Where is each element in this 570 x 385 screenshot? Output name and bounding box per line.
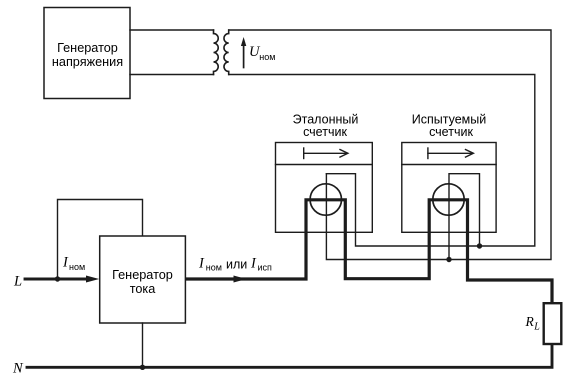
current generator box G2 [100, 236, 186, 323]
svg-text:ном: ном [259, 52, 275, 62]
svg-text:ном: ном [206, 263, 222, 273]
test meter P2 box [402, 143, 496, 233]
svg-text:L: L [533, 322, 540, 333]
svg-text:или: или [226, 257, 247, 271]
svg-text:I: I [250, 255, 257, 271]
node: junction test meter loop on bus [477, 243, 482, 248]
svg-text:ном: ном [69, 262, 85, 272]
voltage generator box G1 [44, 8, 130, 99]
svg-text:L: L [13, 274, 22, 290]
test meter P2 register divider [402, 164, 496, 166]
wire: feedback loop above current generator [58, 200, 143, 280]
arrow: output current direction [234, 276, 247, 283]
label: Генератор тока [112, 268, 173, 296]
reference meter P1 register divider [276, 164, 373, 166]
wire: G1 to transformer primary bottom [130, 74, 214, 76]
node: junction on L line [55, 276, 60, 281]
transformer T1 primary winding [214, 30, 219, 75]
svg-text:Генератор: Генератор [57, 41, 118, 55]
label: L [13, 274, 22, 290]
label: RL [525, 314, 541, 333]
wire: neutral N line [27, 344, 552, 367]
wire: secondary bottom rail to right then down to second bus, into reference meter voltage loop [229, 75, 535, 247]
svg-text:исп: исп [258, 263, 273, 273]
label: Uном [249, 44, 275, 62]
arrow: Uном direction [243, 45, 245, 68]
resistor RL [544, 303, 562, 344]
reference meter P1 register arrow [303, 148, 305, 159]
node: junction test meter tap on bus [446, 257, 451, 262]
wire: test meter voltage loop to buses [449, 174, 480, 260]
wire: line L input [25, 278, 87, 281]
svg-text:R: R [525, 314, 535, 329]
svg-text:I: I [198, 255, 205, 271]
label: Испытуемый счетчик [412, 112, 486, 139]
label: Iном (input) [62, 255, 85, 272]
svg-text:I: I [62, 255, 69, 271]
svg-text:счетчик: счетчик [303, 125, 347, 139]
wire: current generator to N bus [142, 323, 144, 367]
svg-text:счетчик: счетчик [429, 125, 473, 139]
transformer T1 secondary winding [224, 30, 229, 75]
wire: thick current path through both meter current coils to load [185, 200, 552, 303]
reference meter P1 box [276, 143, 373, 233]
node: junction on N line [140, 365, 145, 370]
label: Эталонный счетчик [293, 112, 359, 139]
svg-text:N: N [12, 361, 24, 377]
test meter P2 current coil [433, 184, 464, 215]
label: Генератор напряжения [52, 41, 123, 69]
label: Iном или Iисп [198, 255, 272, 272]
wire: G1 to transformer primary top [130, 29, 214, 31]
wire: secondary top rail to right then down to voltage bus, into reference meter voltage tap [229, 30, 551, 260]
svg-text:тока: тока [130, 282, 157, 296]
svg-text:Генератор: Генератор [112, 268, 173, 282]
reference meter P1 current coil [310, 184, 341, 215]
label: N [12, 361, 24, 377]
svg-text:напряжения: напряжения [52, 55, 123, 69]
test meter P2 register arrow [427, 148, 429, 159]
